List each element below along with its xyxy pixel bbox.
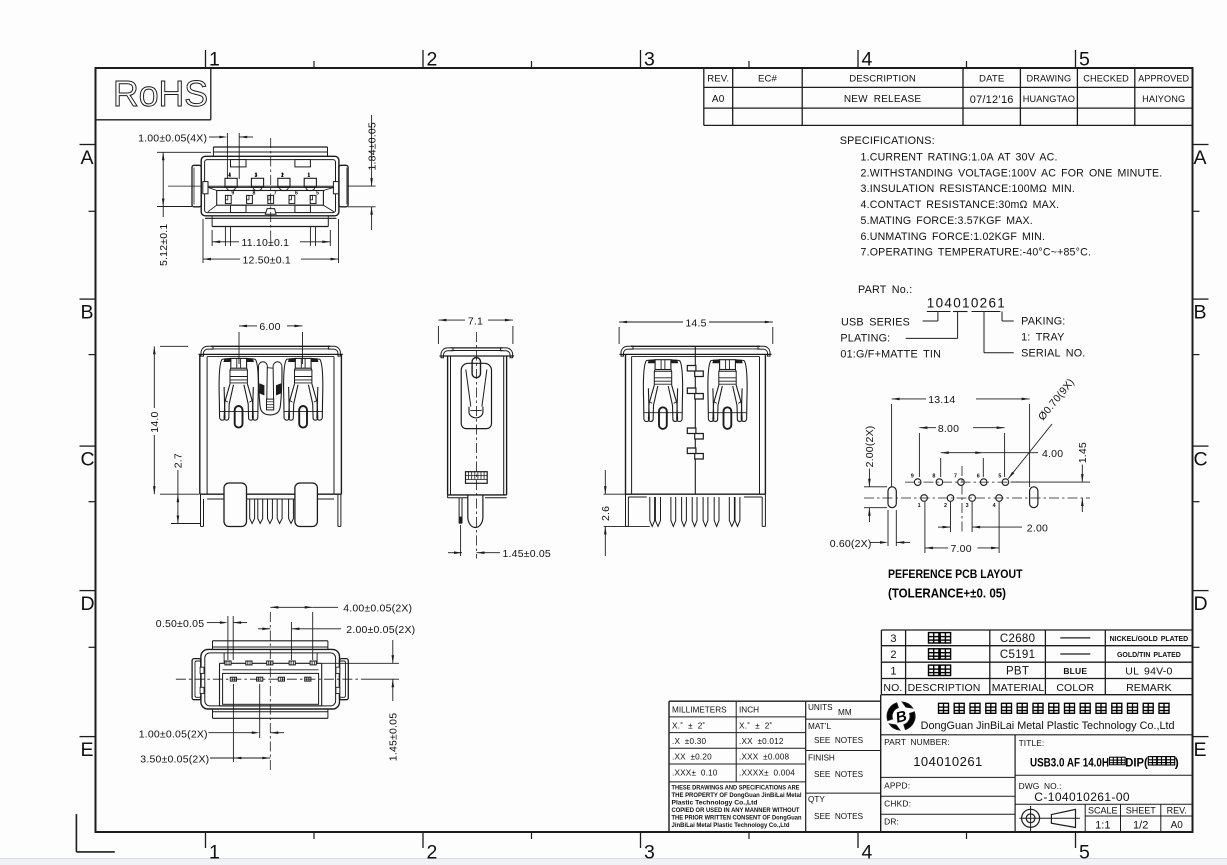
title chinese part (fake glyphs) — [1110, 755, 1179, 769]
PCB slots (2X) — [888, 487, 1038, 508]
svg-text:4: 4 — [862, 48, 873, 70]
center latch (view 2) — [258, 362, 282, 415]
svg-text:UL 94V-0: UL 94V-0 — [1125, 665, 1172, 677]
dimension 0.50±0.05 — [156, 616, 247, 660]
svg-text:C5191: C5191 — [1000, 649, 1035, 661]
svg-text:3: 3 — [890, 633, 896, 645]
svg-text:C: C — [1194, 449, 1208, 471]
svg-text:B: B — [81, 302, 94, 324]
title block grid — [669, 695, 1193, 832]
dimension 1.45±0.05 (view 5) — [322, 640, 400, 761]
svg-text:TITLE:: TITLE: — [1019, 738, 1045, 748]
svg-text:DIP(: DIP( — [1125, 755, 1148, 769]
svg-text:6.UNMATING FORCE:1.02KGF MIN.: 6.UNMATING FORCE:1.02KGF MIN. — [861, 231, 1046, 243]
svg-text:2: 2 — [427, 48, 438, 70]
svg-text:BLUE: BLUE — [1063, 666, 1087, 676]
svg-text:7.1: 7.1 — [468, 316, 483, 328]
svg-text:12.50±0.1: 12.50±0.1 — [243, 254, 291, 266]
svg-text:C: C — [81, 449, 95, 471]
svg-text:SEE NOTES: SEE NOTES — [814, 812, 864, 821]
dimension 4.00±0.05(2X) — [270, 602, 412, 660]
svg-text:SHEET: SHEET — [1126, 805, 1157, 815]
sheet border frame — [96, 68, 1193, 832]
solder legs and feet (view 2) — [201, 483, 341, 527]
svg-text:3: 3 — [966, 503, 969, 509]
svg-text:(TOLERANCE+±0. 05): (TOLERANCE+±0. 05) — [888, 586, 1006, 601]
dimension 1.00±0.05(4X) — [138, 133, 253, 180]
view: rear elevation (14.5 width) — [620, 346, 772, 497]
svg-text:REV.: REV. — [1167, 805, 1187, 815]
svg-text:1/2: 1/2 — [1133, 820, 1148, 832]
svg-text:13.14: 13.14 — [928, 394, 955, 406]
svg-text:01:G/F+MATTE TIN: 01:G/F+MATTE TIN — [840, 349, 941, 361]
svg-text:DATE: DATE — [979, 74, 1004, 85]
svg-text:7.00: 7.00 — [951, 543, 972, 555]
center seam with interlock hooks (view 4) — [687, 346, 703, 494]
svg-text:7: 7 — [274, 191, 277, 197]
svg-text:8: 8 — [932, 474, 935, 480]
svg-text:11.10±0.1: 11.10±0.1 — [242, 237, 290, 249]
svg-text:DESCRIPTION: DESCRIPTION — [849, 74, 916, 85]
svg-text:.X ±0.30: .X ±0.30 — [672, 737, 706, 746]
dimension 1.84±0.05 — [348, 115, 379, 230]
svg-text:2.00: 2.00 — [1027, 522, 1048, 534]
svg-text:104010261: 104010261 — [927, 296, 1006, 311]
svg-text:8: 8 — [253, 191, 256, 197]
svg-text:2: 2 — [944, 503, 947, 509]
revision table — [704, 68, 1193, 125]
svg-text:MILLIMETERS: MILLIMETERS — [672, 706, 727, 715]
svg-text:3.INSULATION RESISTANCE:100MΩ: 3.INSULATION RESISTANCE:100MΩ MIN. — [861, 183, 1076, 195]
svg-text:DR:: DR: — [884, 817, 899, 827]
bottom step plate and pins below view 1 — [205, 216, 337, 246]
dimension 2.6 — [600, 470, 650, 556]
svg-text:X.˚ ± 2˚: X.˚ ± 2˚ — [672, 720, 706, 730]
svg-text:HUANGTAO: HUANGTAO — [1023, 94, 1075, 104]
solder legs (view 3) — [459, 495, 483, 528]
svg-text:MATERIAL: MATERIAL — [992, 682, 1045, 694]
svg-text:1:1: 1:1 — [1095, 820, 1110, 832]
svg-text:PEFERENCE PCB LAYOUT: PEFERENCE PCB LAYOUT — [888, 567, 1023, 581]
centerline horizontal view 1 — [168, 185, 201, 187]
svg-text:2.00(2X): 2.00(2X) — [864, 426, 876, 468]
svg-text:JinBiLai Metal Plastic Technol: JinBiLai Metal Plastic Technology Co.,Lt… — [672, 822, 790, 829]
dimension 5.12±0.1 — [157, 152, 211, 266]
contact spring assembly right (view 2) — [284, 358, 323, 427]
svg-text:2.7: 2.7 — [173, 453, 185, 468]
dimension 7.00 — [925, 502, 999, 555]
dimension 14.5 — [619, 317, 773, 344]
svg-text:2.6: 2.6 — [600, 506, 612, 521]
svg-text:6.00: 6.00 — [259, 321, 280, 333]
material table — [881, 630, 1192, 695]
dimension 6.00 — [239, 321, 303, 364]
svg-text:THESE DRAWINGS AND SPECIFICATI: THESE DRAWINGS AND SPECIFICATIONS ARE — [672, 785, 800, 792]
view: mating face (front) of receptacle — [192, 147, 348, 216]
svg-text:Plastic Technology Co.,Ltd: Plastic Technology Co.,Ltd — [672, 800, 758, 807]
svg-text:NICKEL/GOLD PLATED: NICKEL/GOLD PLATED — [1110, 636, 1189, 643]
svg-text:RoHS: RoHS — [113, 73, 208, 114]
svg-text:1: 1 — [209, 841, 220, 863]
dimension 4.00 — [941, 448, 1064, 477]
part number legend — [840, 284, 1085, 361]
svg-text:GOLD/TIN PLATED: GOLD/TIN PLATED — [1117, 652, 1181, 659]
svg-text:1.84±0.05: 1.84±0.05 — [367, 122, 379, 170]
svg-text:INCH: INCH — [739, 706, 759, 715]
svg-text:DESCRIPTION: DESCRIPTION — [908, 682, 981, 694]
dimension 11.10±0.1 — [212, 230, 330, 249]
svg-text:1.45±0.05: 1.45±0.05 — [388, 713, 400, 761]
svg-text:104010261: 104010261 — [913, 754, 983, 769]
solder pins comb (view 4) — [626, 494, 766, 526]
svg-text:6: 6 — [977, 474, 980, 480]
svg-text:.XXX± 0.10: .XXX± 0.10 — [672, 769, 718, 778]
svg-text:E: E — [1194, 739, 1207, 761]
bottom-view top-row contacts (5) — [225, 661, 316, 665]
zone row ticks and letters (left) — [80, 145, 96, 762]
svg-text:5: 5 — [1079, 48, 1090, 70]
contact spring assembly right (view 4) — [708, 360, 747, 429]
RoHS logo box — [96, 68, 211, 120]
svg-text:.XX ±0.012: .XX ±0.012 — [739, 737, 784, 746]
tongue with USB3 contacts (5) — [208, 187, 334, 211]
svg-text:3: 3 — [644, 48, 655, 70]
svg-text:PBT: PBT — [1006, 665, 1029, 677]
svg-text:1.CURRENT RATING:1.0A AT 30V A: 1.CURRENT RATING:1.0A AT 30V AC. — [861, 152, 1058, 164]
dimension 0.60(2X) — [830, 510, 910, 550]
zone column ticks and numerals (bottom) — [206, 832, 1091, 863]
svg-text:PART NUMBER:: PART NUMBER: — [884, 737, 950, 747]
svg-text:.XX ±0.20: .XX ±0.20 — [672, 753, 712, 762]
svg-text:4.00: 4.00 — [1042, 448, 1063, 460]
svg-text:THE PRIOR WRITTEN CONSENT OF D: THE PRIOR WRITTEN CONSENT OF DongGuan — [672, 815, 802, 822]
svg-text:A0: A0 — [712, 94, 725, 105]
PCB holes top row (pins 9-5) — [911, 474, 1009, 486]
svg-text:A: A — [1194, 147, 1207, 169]
svg-text:): ) — [1175, 755, 1179, 769]
label PEFERENCE PCB LAYOUT — [888, 567, 1023, 601]
view: side elevation (7.1 width) — [440, 348, 515, 498]
dimension 2.7 — [171, 453, 200, 523]
svg-text:0.50±0.05: 0.50±0.05 — [156, 618, 204, 630]
svg-text:.XXX ±0.008: .XXX ±0.008 — [739, 753, 790, 762]
svg-text:3: 3 — [644, 841, 655, 863]
svg-text:NO.: NO. — [883, 682, 902, 694]
dimension 2.00 (bottom row pitch) — [938, 502, 1048, 534]
svg-text:.XXXX± 0.004: .XXXX± 0.004 — [739, 769, 795, 778]
svg-text:FINISH: FINISH — [808, 754, 835, 763]
svg-text:07/12’16: 07/12’16 — [970, 94, 1014, 106]
svg-text:SEE NOTES: SEE NOTES — [814, 770, 864, 779]
svg-text:9: 9 — [231, 191, 234, 197]
dimension 2.00±0.05(2X) — [258, 622, 415, 660]
svg-text:DRAWING: DRAWING — [1027, 74, 1072, 84]
zone row ticks and letters (right) — [1193, 145, 1209, 762]
dwg no box text — [1019, 781, 1130, 804]
svg-text:D: D — [1194, 593, 1208, 615]
svg-text:HAIYONG: HAIYONG — [1142, 94, 1185, 104]
specifications text block — [840, 135, 1163, 259]
svg-text:4: 4 — [993, 503, 996, 509]
retention barb block (view 3) — [466, 472, 488, 484]
svg-text:9: 9 — [911, 474, 914, 480]
svg-text:3.50±0.05(2X): 3.50±0.05(2X) — [140, 753, 209, 765]
svg-text:USB SERIES: USB SERIES — [841, 317, 910, 329]
svg-text:6: 6 — [295, 191, 298, 197]
window bottom strip artifact — [0, 858, 1227, 865]
svg-text:SCALE: SCALE — [1088, 805, 1118, 815]
svg-text:CHKD:: CHKD: — [884, 799, 911, 809]
svg-text:0.60(2X): 0.60(2X) — [830, 538, 872, 550]
dimension 12.50±0.1 — [203, 219, 339, 266]
svg-text:1: 1 — [918, 503, 921, 509]
svg-text:5: 5 — [998, 474, 1001, 480]
svg-text:2: 2 — [427, 841, 438, 863]
svg-text:14.5: 14.5 — [685, 317, 706, 329]
dimension 14.0 — [149, 346, 199, 494]
centerline vertical view 1 (dash-dot) — [270, 138, 272, 249]
svg-text:X.˚ ± 2˚: X.˚ ± 2˚ — [739, 720, 773, 730]
svg-text:APPD:: APPD: — [884, 781, 910, 791]
svg-text:5.12±0.1: 5.12±0.1 — [158, 224, 170, 266]
svg-text:PART No.:: PART No.: — [858, 284, 912, 296]
svg-text:4: 4 — [862, 841, 873, 863]
dimension 8.00 — [919, 423, 1004, 477]
centerline (view 3, dash-dot) — [476, 332, 478, 559]
svg-text:DongGuan JinBiLai Metal Plasti: DongGuan JinBiLai Metal Plastic Technolo… — [921, 720, 1175, 732]
svg-text:EC#: EC# — [758, 74, 778, 85]
svg-text:USB3.0 AF 14.0H: USB3.0 AF 14.0H — [1030, 755, 1109, 769]
contact spring assembly left (view 2) — [219, 358, 258, 427]
svg-text:4.00±0.05(2X): 4.00±0.05(2X) — [343, 602, 412, 614]
svg-text:C2680: C2680 — [1000, 633, 1035, 645]
zone column ticks and numerals (top) — [206, 48, 1091, 70]
dimension 1.00±0.05(2X) — [139, 684, 284, 740]
company name chinese (fake glyphs) — [939, 703, 1170, 713]
svg-text:E: E — [81, 739, 94, 761]
svg-text:COLOR: COLOR — [1056, 682, 1094, 694]
svg-text:CHECKED: CHECKED — [1083, 74, 1129, 84]
svg-text:APPROVED: APPROVED — [1138, 74, 1189, 84]
upper USB2 contacts (4) with pin numbers — [225, 173, 316, 188]
svg-text:2: 2 — [890, 649, 896, 661]
company logo — [883, 699, 918, 734]
reference PCB layout drawing — [864, 466, 1090, 534]
centerlines (view 5) — [176, 612, 362, 772]
svg-text:D: D — [81, 593, 95, 615]
svg-text:14.0: 14.0 — [149, 411, 161, 432]
scale sheet rev boxes text — [1088, 805, 1187, 831]
latch keyhole cutout (view 3) — [461, 358, 491, 429]
svg-text:THE PROPERTY OF DongGuan JinBi: THE PROPERTY OF DongGuan JinBiLai Metal — [672, 792, 802, 799]
part number box text — [884, 737, 983, 827]
svg-text:5.MATING FORCE:3.57KGF MAX.: 5.MATING FORCE:3.57KGF MAX. — [861, 215, 1033, 227]
contact spring assembly left (view 4) — [643, 360, 682, 429]
tolerance table text — [672, 706, 795, 778]
svg-text:7: 7 — [954, 474, 957, 480]
dimension 2.00(2X) slots — [864, 426, 887, 522]
svg-text:NEW RELEASE: NEW RELEASE — [844, 94, 922, 105]
svg-text:COPIED OR USED IN ANY MANNER W: COPIED OR USED IN ANY MANNER WITHOUT — [672, 807, 800, 814]
bottom-left corner crop mark — [76, 814, 114, 852]
PCB holes bottom row (pins 1-4) — [918, 495, 1003, 509]
svg-text:7.OPERATING TEMPERATURE:-40°C~: 7.OPERATING TEMPERATURE:-40°C~+85°C. — [861, 247, 1092, 259]
svg-text:5: 5 — [316, 191, 319, 197]
dimension 7.1 — [438, 316, 513, 345]
svg-text:SEE NOTES: SEE NOTES — [814, 736, 864, 745]
svg-text:1: 1 — [890, 665, 896, 677]
svg-text:REMARK: REMARK — [1126, 682, 1172, 694]
svg-text:MM: MM — [838, 708, 852, 717]
svg-text:QTY: QTY — [808, 795, 825, 804]
dimension Ø0.70(9X) with leader — [1008, 376, 1077, 478]
svg-text:A: A — [81, 147, 94, 169]
view: front elevation (14.0 height) — [199, 346, 343, 499]
svg-text:REV.: REV. — [707, 74, 729, 85]
title box text — [1019, 738, 1109, 769]
svg-text:1.00±0.05(4X): 1.00±0.05(4X) — [138, 133, 207, 145]
material table chinese descriptions — [929, 633, 951, 676]
svg-text:1.45±0.05: 1.45±0.05 — [503, 548, 551, 560]
svg-text:PLATING:: PLATING: — [840, 333, 890, 345]
svg-text:SPECIFICATIONS:: SPECIFICATIONS: — [840, 135, 935, 147]
svg-text:1: TRAY: 1: TRAY — [1021, 332, 1064, 344]
svg-text:C-104010261-00: C-104010261-00 — [1034, 790, 1130, 804]
svg-text:1.00±0.05(2X): 1.00±0.05(2X) — [139, 728, 208, 740]
svg-text:UNITS: UNITS — [808, 703, 833, 712]
units / matl / finish / qty column — [808, 703, 864, 821]
svg-text:B: B — [1194, 302, 1207, 324]
company name english — [921, 720, 1175, 732]
svg-text:8.00: 8.00 — [938, 423, 959, 435]
view: bottom (PCB side) of connector — [192, 641, 348, 719]
svg-text:SERIAL NO.: SERIAL NO. — [1021, 348, 1085, 360]
svg-text:1: 1 — [209, 48, 220, 70]
projection symbol — [1019, 806, 1080, 832]
bottom-view bottom-row contacts (4) — [230, 677, 311, 681]
svg-text:A0: A0 — [1171, 820, 1184, 831]
svg-text:5: 5 — [1079, 841, 1090, 863]
svg-text:1.45: 1.45 — [1077, 442, 1089, 463]
svg-text:MAT’L: MAT’L — [808, 722, 831, 731]
dimension 1.45±0.05 (view 3) — [448, 525, 551, 560]
svg-text:PAKING:: PAKING: — [1021, 316, 1065, 328]
svg-text:4.CONTACT RESISTANCE:30mΩ MAX.: 4.CONTACT RESISTANCE:30mΩ MAX. — [861, 199, 1060, 211]
svg-text:2.00±0.05(2X): 2.00±0.05(2X) — [346, 624, 415, 636]
legal notice text — [672, 785, 802, 830]
svg-text:2.WITHSTANDING VOLTAGE:100V AC: 2.WITHSTANDING VOLTAGE:100V AC FOR ONE M… — [861, 167, 1163, 179]
dimension 3.50±0.05(2X) — [140, 684, 270, 765]
dimension 13.14 — [892, 394, 1030, 487]
dimension 1.45 (PCB) — [1011, 442, 1090, 512]
